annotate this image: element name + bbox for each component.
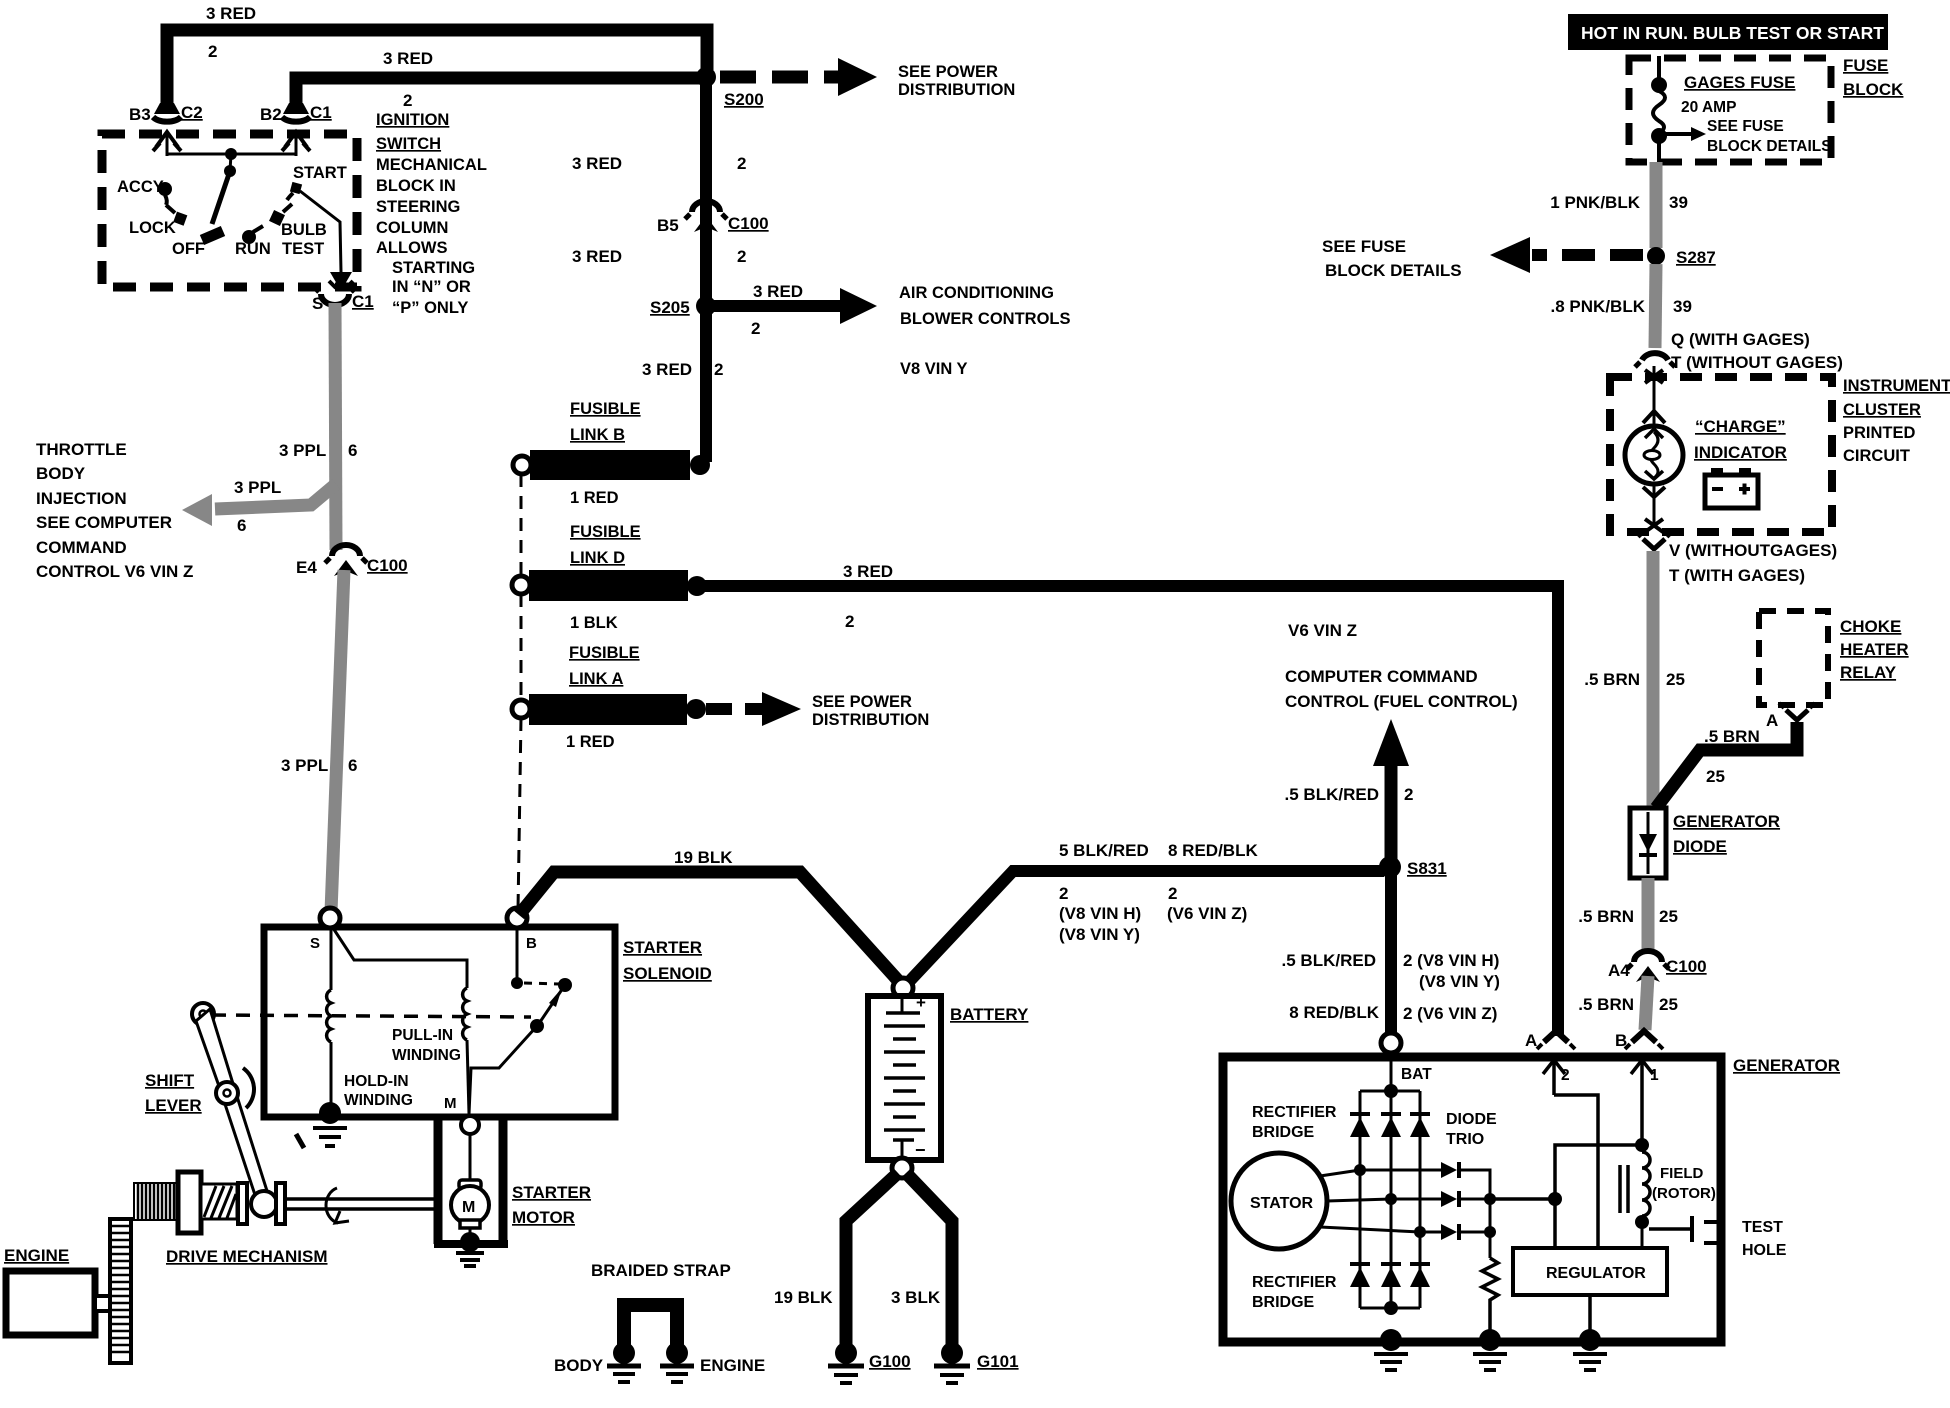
battery icon: [1705, 468, 1758, 508]
wire dashed feed joining fusible links: [518, 474, 521, 910]
connector C2 terminal B3: [129, 103, 203, 124]
svg-text:BLOCK DETAILS: BLOCK DETAILS: [1325, 261, 1462, 280]
wire .5 BRN A4 to generator B: [1578, 976, 1678, 1030]
charge indicator bulb: [1625, 426, 1683, 484]
moving contact node: [558, 978, 572, 992]
contact BULB TEST: [269, 204, 327, 258]
svg-text:.5 BRN: .5 BRN: [1584, 670, 1640, 689]
svg-text:LINK A: LINK A: [569, 670, 623, 688]
svg-text:C100: C100: [367, 556, 408, 575]
svg-text:2: 2: [737, 154, 746, 173]
svg-text:GENERATOR: GENERATOR: [1673, 812, 1780, 831]
ground ENGINE: [660, 1342, 765, 1382]
svg-text:2: 2: [714, 360, 723, 379]
svg-text:25: 25: [1659, 907, 1678, 926]
starter motor housing: [434, 1120, 508, 1244]
svg-text:Q (WITH GAGES): Q (WITH GAGES): [1671, 330, 1810, 349]
svg-text:8 RED/BLK: 8 RED/BLK: [1289, 1003, 1379, 1022]
svg-text:PULL-IN: PULL-IN: [392, 1027, 453, 1044]
svg-text:ENGINE: ENGINE: [700, 1356, 765, 1375]
svg-text:BLOCK IN: BLOCK IN: [376, 177, 456, 195]
wire S to windings: [331, 928, 467, 990]
drive mechanism splined shaft: [134, 1183, 178, 1220]
wire B to contact: [516, 928, 519, 978]
fusible link A: [512, 694, 706, 751]
svg-text:SEE FUSE: SEE FUSE: [1707, 118, 1784, 135]
svg-text:39: 39: [1669, 193, 1688, 212]
svg-text:DRIVE MECHANISM: DRIVE MECHANISM: [166, 1247, 328, 1266]
shift lever pivot: [192, 1003, 214, 1025]
rectifier labels: [1252, 1104, 1497, 1311]
starter motor ground: [456, 1232, 484, 1266]
shift lever fulcrum: [216, 1068, 254, 1108]
braided strap: [591, 1261, 731, 1348]
svg-text:5 BLK/RED: 5 BLK/RED: [1059, 841, 1149, 860]
svg-text:3 RED: 3 RED: [753, 282, 803, 301]
svg-text:2: 2: [1059, 884, 1068, 903]
svg-text:19 BLK: 19 BLK: [674, 848, 733, 867]
terminal S: [310, 908, 340, 952]
svg-text:BRAIDED STRAP: BRAIDED STRAP: [591, 1261, 731, 1280]
svg-text:19 BLK: 19 BLK: [774, 1288, 833, 1307]
svg-text:AIR CONDITIONING: AIR CONDITIONING: [899, 284, 1054, 302]
drive mechanism pinion flange: [178, 1172, 201, 1233]
battery negative terminal: [892, 1158, 912, 1178]
drive collar: [238, 1183, 247, 1224]
terminal M: [444, 1095, 479, 1134]
svg-text:STARTING: STARTING: [392, 259, 475, 277]
stator phase lines: [1320, 1164, 1441, 1238]
ground G100: [828, 1342, 911, 1383]
svg-text:1 RED: 1 RED: [566, 733, 615, 751]
svg-text:(V8 VIN Y): (V8 VIN Y): [1419, 972, 1500, 991]
resistor: [1482, 1258, 1498, 1338]
svg-text:BLOWER CONTROLS: BLOWER CONTROLS: [900, 310, 1071, 328]
svg-text:ACCY: ACCY: [117, 178, 164, 196]
svg-text:2: 2: [1561, 1067, 1570, 1084]
ignition switch text block: [376, 111, 487, 317]
fusible link B label: [570, 400, 641, 444]
svg-text:C1: C1: [352, 292, 374, 311]
svg-text:RECTIFIER: RECTIFIER: [1252, 1104, 1337, 1121]
svg-text:IN “N” OR: IN “N” OR: [392, 278, 471, 296]
svg-text:LEVER: LEVER: [145, 1096, 202, 1115]
splice node S205: [650, 296, 716, 317]
svg-text:WINDING: WINDING: [392, 1047, 461, 1064]
svg-text:39: 39: [1673, 297, 1692, 316]
wire 19 BLK solenoid B to battery: [519, 848, 903, 986]
wire START to S output with arrow: [300, 191, 353, 291]
svg-text:“P” ONLY: “P” ONLY: [392, 299, 468, 317]
diode trio: [1441, 1162, 1459, 1240]
svg-text:V8 VIN Y: V8 VIN Y: [900, 360, 968, 378]
drive collar 2: [276, 1183, 285, 1224]
wire dashed to power distribution: [720, 58, 1015, 99]
rotary wiper pivot node: [224, 154, 236, 177]
svg-text:.5 BRN: .5 BRN: [1704, 727, 1760, 746]
fusible link A label: [569, 644, 640, 688]
svg-text:SEE FUSE: SEE FUSE: [1322, 237, 1406, 256]
wire 3 PPL ignition S to E4: [279, 303, 357, 550]
terminal B: [507, 908, 537, 952]
dashed contact gap: [524, 983, 560, 984]
pull-in winding coil: [463, 988, 469, 1114]
generator grounds: [1374, 1329, 1408, 1370]
svg-text:RELAY: RELAY: [1840, 663, 1897, 682]
svg-text:(V8 VIN Y): (V8 VIN Y): [1059, 925, 1140, 944]
svg-text:MOTOR: MOTOR: [512, 1208, 575, 1227]
svg-text:STARTER: STARTER: [623, 938, 702, 957]
test hole: [1649, 1216, 1787, 1259]
BAT feed line: [1360, 1053, 1420, 1098]
svg-text:LOCK: LOCK: [129, 219, 176, 237]
svg-text:SEE COMPUTER: SEE COMPUTER: [36, 513, 172, 532]
connector C100 terminal E4: [296, 545, 408, 577]
svg-text:2: 2: [845, 612, 854, 631]
svg-text:INSTRUMENT: INSTRUMENT: [1843, 377, 1950, 395]
contact LOCK: [129, 205, 187, 237]
svg-text:SOLENOID: SOLENOID: [623, 964, 712, 983]
svg-text:STARTER: STARTER: [512, 1183, 591, 1202]
contact ACCY: [117, 178, 172, 205]
node on bus: [225, 148, 237, 160]
svg-text:6: 6: [348, 756, 357, 775]
svg-text:T (WITH GAGES): T (WITH GAGES): [1669, 566, 1805, 585]
svg-text:DIODE: DIODE: [1673, 837, 1727, 856]
svg-text:COMPUTER COMMAND: COMPUTER COMMAND: [1285, 667, 1478, 686]
choke heater relay box: [1759, 611, 1909, 705]
svg-text:HOT IN RUN. BULB TEST OR START: HOT IN RUN. BULB TEST OR START: [1581, 23, 1884, 43]
svg-text:BATTERY: BATTERY: [950, 1005, 1029, 1024]
battery: [868, 993, 1029, 1160]
svg-text:S831: S831: [1407, 859, 1447, 878]
switch feed arrow to B2: [282, 132, 310, 156]
svg-text:2: 2: [208, 42, 217, 61]
svg-text:DISTRIBUTION: DISTRIBUTION: [898, 81, 1015, 99]
svg-text:C2: C2: [181, 103, 203, 122]
hold-in ground: [296, 1102, 347, 1148]
svg-text:STATOR: STATOR: [1250, 1195, 1314, 1212]
svg-text:DISTRIBUTION: DISTRIBUTION: [812, 711, 929, 729]
svg-text:HOLE: HOLE: [1742, 1242, 1787, 1259]
shift lever arm: [196, 1009, 268, 1198]
engine ring gear: [110, 1219, 131, 1363]
generator diode: [1630, 808, 1780, 878]
svg-text:BULB: BULB: [281, 221, 327, 239]
wire 5 BLK/RED 8 RED/BLK battery to S831: [905, 841, 1384, 986]
svg-text:2 (V6 VIN Z): 2 (V6 VIN Z): [1403, 1004, 1497, 1023]
svg-text:2: 2: [1404, 785, 1413, 804]
svg-text:LINK B: LINK B: [570, 426, 625, 444]
svg-text:BODY: BODY: [554, 1356, 604, 1375]
connector Q T into cluster: [1635, 330, 1843, 372]
armature shaft: [285, 1188, 434, 1223]
svg-text:B: B: [1615, 1031, 1627, 1050]
svg-text:(V8 VIN H): (V8 VIN H): [1059, 904, 1141, 923]
svg-text:CONTROL V6 VIN Z: CONTROL V6 VIN Z: [36, 562, 193, 581]
svg-text:1 PNK/BLK: 1 PNK/BLK: [1550, 193, 1640, 212]
wire .8 PNK/BLK S287 to cluster: [1551, 264, 1692, 348]
svg-text:WINDING: WINDING: [344, 1092, 413, 1109]
connector B at generator: [1615, 1031, 1663, 1050]
svg-text:RECTIFIER: RECTIFIER: [1252, 1274, 1337, 1291]
svg-text:ENGINE: ENGINE: [4, 1246, 69, 1265]
svg-text:S200: S200: [724, 90, 764, 109]
svg-text:1 BLK: 1 BLK: [570, 614, 618, 632]
svg-text:B5: B5: [657, 216, 679, 235]
svg-text:6: 6: [348, 441, 357, 460]
svg-text:OFF: OFF: [172, 240, 205, 258]
wire S831 down to generator BAT: [1282, 867, 1500, 1034]
svg-text:1: 1: [1650, 1067, 1659, 1084]
svg-text:MECHANICAL: MECHANICAL: [376, 156, 487, 174]
fuse block dashed box: [1629, 56, 1904, 162]
wire dashed link A to power distribution: [706, 692, 929, 729]
charge indicator labels: [1694, 417, 1787, 462]
drive mechanism clutch hatched: [201, 1184, 237, 1219]
svg-text:GAGES FUSE: GAGES FUSE: [1684, 73, 1795, 92]
svg-text:.5 BRN: .5 BRN: [1578, 995, 1634, 1014]
svg-text:25: 25: [1666, 670, 1685, 689]
wire dashed S287 to fuse block details: [1322, 237, 1643, 280]
battery positive terminal: [893, 978, 913, 998]
svg-text:.5 BLK/RED: .5 BLK/RED: [1285, 785, 1379, 804]
svg-text:2: 2: [403, 91, 412, 110]
svg-text:3 RED: 3 RED: [572, 154, 622, 173]
svg-text:S287: S287: [1676, 248, 1716, 267]
svg-text:3 RED: 3 RED: [383, 49, 433, 68]
wire .5 BRN cluster to generator diode: [1584, 551, 1685, 806]
regulator feed from A: [1554, 1095, 1598, 1248]
svg-text:A: A: [1525, 1031, 1537, 1050]
fusible link B: [513, 450, 710, 507]
svg-text:FUSIBLE: FUSIBLE: [569, 644, 640, 662]
switch feed arrow to B3: [153, 132, 181, 156]
wire 1 PNK/BLK fuse to S287: [1550, 162, 1688, 248]
wire .5 BRN diode to A4: [1578, 878, 1678, 952]
svg-text:TEST: TEST: [282, 240, 324, 258]
svg-text:TEST: TEST: [1742, 1219, 1783, 1236]
starter motor label: [512, 1183, 591, 1227]
svg-text:CLUSTER: CLUSTER: [1843, 401, 1921, 419]
wire 3 RED S200 to fusible link B: [572, 77, 746, 462]
svg-text:COMMAND: COMMAND: [36, 538, 127, 557]
svg-text:CONTROL (FUEL CONTROL): CONTROL (FUEL CONTROL): [1285, 692, 1518, 711]
svg-text:S: S: [310, 935, 320, 952]
shift lever label: [145, 1071, 202, 1115]
svg-text:INJECTION: INJECTION: [36, 489, 127, 508]
svg-text:2 (V8 VIN H): 2 (V8 VIN H): [1403, 951, 1499, 970]
svg-text:FUSIBLE: FUSIBLE: [570, 523, 641, 541]
svg-text:IGNITION: IGNITION: [376, 111, 449, 129]
svg-text:3 BLK: 3 BLK: [891, 1288, 941, 1307]
svg-text:CIRCUIT: CIRCUIT: [1843, 447, 1910, 465]
svg-text:V6 VIN Z: V6 VIN Z: [1288, 621, 1357, 640]
svg-text:THROTTLE: THROTTLE: [36, 440, 127, 459]
svg-text:START: START: [293, 164, 347, 182]
ground BODY: [554, 1342, 641, 1382]
svg-text:C100: C100: [728, 214, 769, 233]
svg-text:B3: B3: [129, 105, 151, 124]
wire 19 BLK battery to G100: [774, 1173, 898, 1346]
svg-text:STEERING: STEERING: [376, 198, 460, 216]
engine block: [4, 1246, 110, 1335]
svg-text:(V6 VIN Z): (V6 VIN Z): [1167, 904, 1247, 923]
svg-text:DIODE: DIODE: [1446, 1111, 1497, 1128]
svg-text:.5 BLK/RED: .5 BLK/RED: [1282, 951, 1376, 970]
svg-text:3 RED: 3 RED: [572, 247, 622, 266]
contact OFF: [172, 240, 205, 258]
rectifier diodes top: [1350, 1114, 1430, 1137]
svg-text:A: A: [1766, 711, 1778, 730]
svg-text:.8 PNK/BLK: .8 PNK/BLK: [1551, 297, 1646, 316]
svg-text:GENERATOR: GENERATOR: [1733, 1056, 1840, 1075]
svg-text:“CHARGE”: “CHARGE”: [1695, 417, 1786, 436]
rectifier diodes bottom: [1350, 1264, 1430, 1287]
wire into charge bulb: [1643, 366, 1665, 428]
svg-text:S: S: [312, 294, 323, 313]
connector C1 terminal B2: [260, 103, 332, 124]
svg-text:2: 2: [751, 319, 760, 338]
connector B5 C100: [657, 201, 769, 235]
svg-text:S205: S205: [650, 298, 690, 317]
ignition switch dashed box: [102, 134, 357, 287]
svg-text:3 RED: 3 RED: [206, 4, 256, 23]
svg-text:M: M: [444, 1095, 457, 1112]
fusible link D label: [570, 523, 641, 567]
svg-text:3 PPL: 3 PPL: [234, 478, 281, 497]
svg-text:G100: G100: [869, 1352, 911, 1371]
svg-text:25: 25: [1706, 767, 1725, 786]
wire bulb to cluster bottom: [1643, 484, 1665, 532]
wire .5 BRN choke relay to diode: [1656, 722, 1797, 808]
gages fuse: [1651, 56, 1832, 162]
svg-text:BRIDGE: BRIDGE: [1252, 1124, 1315, 1141]
svg-text:REGULATOR: REGULATOR: [1546, 1265, 1646, 1282]
computer command control labels: [1285, 621, 1518, 711]
drive mechanism label: [166, 1247, 328, 1266]
shift lever dashed link: [212, 1015, 531, 1017]
svg-text:FUSE: FUSE: [1843, 56, 1888, 75]
svg-text:CHOKE: CHOKE: [1840, 617, 1901, 636]
trio output bus: [1461, 1170, 1562, 1258]
svg-text:SHIFT: SHIFT: [145, 1071, 195, 1090]
svg-text:G101: G101: [977, 1352, 1019, 1371]
svg-text:E4: E4: [296, 558, 317, 577]
svg-text:INDICATOR: INDICATOR: [1694, 443, 1787, 462]
svg-text:C100: C100: [1666, 957, 1707, 976]
svg-text:+: +: [916, 993, 926, 1012]
svg-text:3 RED: 3 RED: [642, 360, 692, 379]
generator box: [1223, 1056, 1840, 1342]
svg-text:HOLD-IN: HOLD-IN: [344, 1073, 409, 1090]
svg-text:LINK D: LINK D: [570, 549, 625, 567]
svg-text:C1: C1: [310, 103, 332, 122]
rotary wiper lever to OFF: [202, 171, 230, 240]
svg-text:ALLOWS: ALLOWS: [376, 239, 448, 257]
terminal B arrow inside: [1631, 1060, 1659, 1095]
svg-text:T (WITHOUT GAGES): T (WITHOUT GAGES): [1671, 353, 1843, 372]
svg-text:25: 25: [1659, 995, 1678, 1014]
stator: [1231, 1153, 1327, 1249]
svg-text:3 PPL: 3 PPL: [279, 441, 326, 460]
wire 3 RED top from C2 to S200: [167, 4, 707, 106]
svg-text:BLOCK: BLOCK: [1843, 80, 1904, 99]
header HOT IN RUN: [1568, 14, 1888, 50]
connector C1 terminal S below switch: [312, 287, 374, 313]
svg-text:M: M: [462, 1199, 475, 1216]
wire 3 PPL E4 to solenoid S: [281, 570, 357, 912]
moving contact blade: [469, 985, 565, 1114]
rectifier bridge rails: [1360, 1091, 1420, 1315]
wire 3 BLK battery to G101: [891, 1173, 952, 1346]
splice node S831: [1379, 856, 1447, 878]
svg-text:TRIO: TRIO: [1446, 1131, 1484, 1148]
svg-text:8 RED/BLK: 8 RED/BLK: [1168, 841, 1258, 860]
contact B node: [511, 977, 523, 989]
svg-text:BAT: BAT: [1401, 1066, 1432, 1083]
wire 3 RED from C1 to S200: [296, 49, 700, 110]
svg-text:2: 2: [737, 247, 746, 266]
svg-text:COLUMN: COLUMN: [376, 219, 448, 237]
connector C100 terminal A4: [1608, 951, 1707, 982]
svg-text:SEE POWER: SEE POWER: [812, 693, 912, 711]
svg-text:HEATER: HEATER: [1840, 640, 1909, 659]
svg-text:3 RED: 3 RED: [843, 562, 893, 581]
splice node S287: [1647, 247, 1716, 267]
winding labels: [344, 1027, 461, 1109]
hold-in winding coil: [327, 990, 331, 1108]
connector A choke relay: [1766, 703, 1815, 730]
svg-text:2: 2: [1168, 884, 1177, 903]
svg-text:.5 BRN: .5 BRN: [1578, 907, 1634, 926]
shift fork ball: [251, 1191, 277, 1217]
contact START: [287, 164, 347, 200]
starter motor: [451, 1134, 489, 1238]
svg-text:PRINTED: PRINTED: [1843, 424, 1916, 442]
svg-text:FUSIBLE: FUSIBLE: [570, 400, 641, 418]
svg-text:1 RED: 1 RED: [570, 489, 619, 507]
svg-text:SEE POWER: SEE POWER: [898, 63, 998, 81]
terminal A arrow inside: [1543, 1060, 1570, 1095]
generator BAT terminal: [1381, 1033, 1432, 1083]
svg-text:BLOCK DETAILS: BLOCK DETAILS: [1707, 138, 1832, 155]
svg-text:B2: B2: [260, 105, 282, 124]
svg-text:3 PPL: 3 PPL: [281, 756, 328, 775]
wire 3 RED link D to generator A: [697, 562, 1558, 1036]
svg-text:V (WITHOUTGAGES): V (WITHOUTGAGES): [1669, 541, 1837, 560]
field feed from B: [1555, 1095, 1649, 1248]
throttle body text block: [36, 440, 193, 581]
wire 3 RED to A/C blower controls: [706, 282, 1071, 378]
svg-text:−: −: [915, 1140, 926, 1160]
field rotor coil: [1620, 1152, 1716, 1248]
fusible link D: [512, 570, 707, 632]
svg-text:BODY: BODY: [36, 464, 86, 483]
starter solenoid box: [264, 927, 712, 1117]
svg-text:20 AMP: 20 AMP: [1681, 99, 1736, 116]
regulator: [1513, 1248, 1667, 1336]
ground G101: [934, 1342, 1019, 1383]
svg-text:FIELD: FIELD: [1660, 1165, 1703, 1182]
wire 5 BLK/RED S831 up to fuel control arrow: [1285, 719, 1414, 866]
wire 3 PPL branch to throttle body injection: [182, 478, 336, 535]
svg-text:A4: A4: [1608, 961, 1630, 980]
svg-text:B: B: [526, 935, 537, 952]
connector A at generator: [1525, 1031, 1575, 1050]
connector V T below cluster: [1636, 532, 1837, 585]
svg-text:SWITCH: SWITCH: [376, 135, 441, 153]
